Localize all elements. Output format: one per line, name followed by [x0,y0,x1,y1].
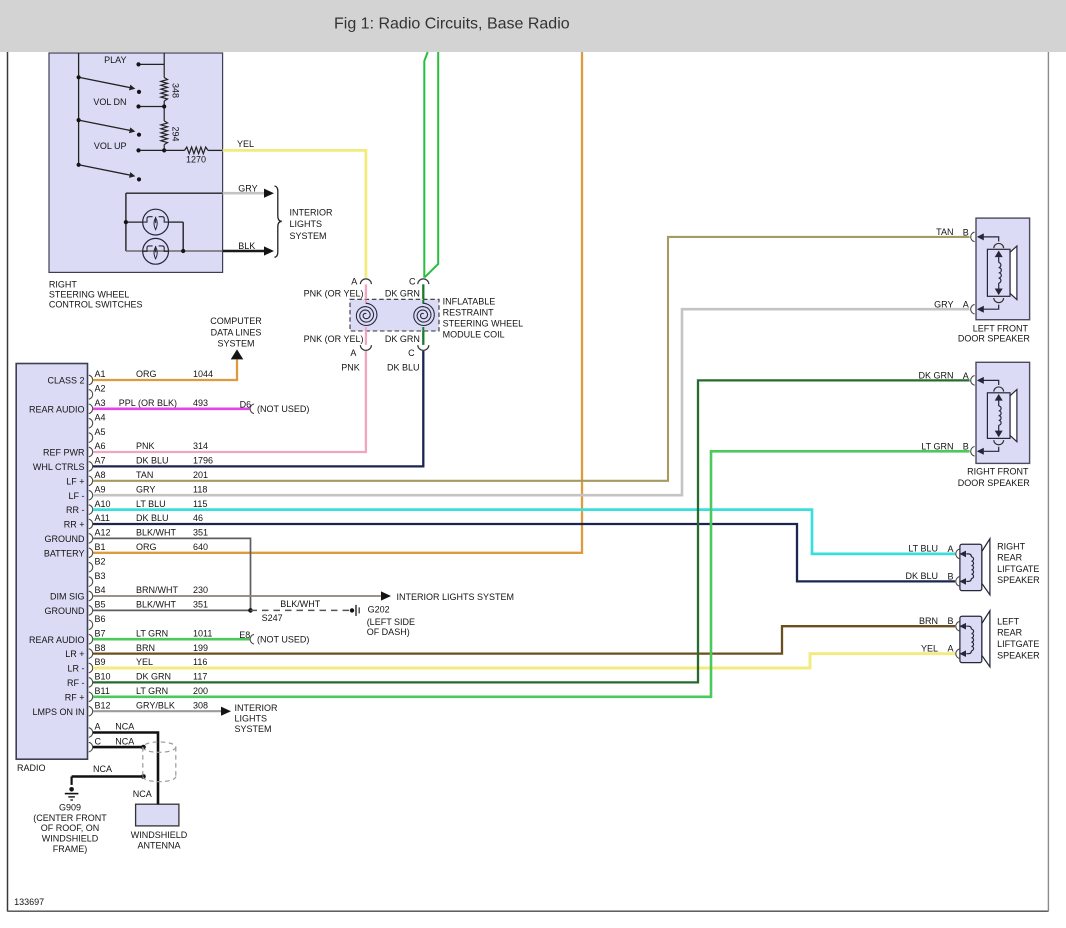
svg-text:GRY/BLK: GRY/BLK [136,700,175,710]
svg-text:SYSTEM: SYSTEM [217,338,254,348]
svg-text:LR +: LR + [65,649,84,659]
svg-text:STEERING WHEEL: STEERING WHEEL [443,319,524,329]
svg-text:REF PWR: REF PWR [43,448,85,458]
svg-text:G202: G202 [368,605,390,615]
svg-text:DOOR SPEAKER: DOOR SPEAKER [958,478,1031,488]
svg-text:WINDSHIELD: WINDSHIELD [131,830,188,840]
svg-text:ORG: ORG [136,369,157,379]
svg-text:308: 308 [193,700,208,710]
svg-text:A1: A1 [95,369,106,379]
svg-text:SPEAKER: SPEAKER [997,575,1040,585]
svg-text:A: A [947,644,953,654]
svg-text:A10: A10 [95,499,111,509]
svg-text:A6: A6 [95,441,106,451]
svg-text:SYSTEM: SYSTEM [235,724,272,734]
svg-text:(CENTER FRONT: (CENTER FRONT [33,813,107,823]
svg-text:TAN: TAN [936,227,953,237]
svg-text:DK BLU: DK BLU [136,456,169,466]
svg-text:INTERIOR: INTERIOR [290,207,334,217]
svg-text:RF +: RF + [65,692,85,702]
svg-text:199: 199 [193,643,208,653]
svg-text:LEFT: LEFT [997,616,1020,626]
svg-text:OF DASH): OF DASH) [367,627,410,637]
svg-text:A: A [963,371,969,381]
svg-text:640: 640 [193,542,208,552]
svg-text:RR -: RR - [66,505,85,515]
svg-text:FRAME): FRAME) [53,844,88,854]
svg-text:1270: 1270 [186,155,206,165]
svg-text:(LEFT SIDE: (LEFT SIDE [367,617,415,627]
svg-text:B: B [963,227,969,237]
svg-text:YEL: YEL [136,657,153,667]
svg-text:INTERIOR LIGHTS SYSTEM: INTERIOR LIGHTS SYSTEM [397,592,515,602]
svg-text:LEFT FRONT: LEFT FRONT [973,324,1029,334]
svg-text:1796: 1796 [193,456,213,466]
svg-text:LT BLU: LT BLU [136,499,166,509]
svg-text:WHL CTRLS: WHL CTRLS [33,462,85,472]
svg-text:B2: B2 [95,556,106,566]
svg-text:B: B [947,616,953,626]
svg-text:REAR: REAR [997,628,1023,638]
svg-text:VOL UP: VOL UP [94,141,127,151]
svg-text:REAR AUDIO: REAR AUDIO [29,635,85,645]
svg-text:DK BLU: DK BLU [387,362,420,372]
svg-text:SPEAKER: SPEAKER [997,650,1040,660]
svg-text:CONTROL SWITCHES: CONTROL SWITCHES [49,299,143,309]
svg-text:INTERIOR: INTERIOR [235,703,279,713]
svg-text:117: 117 [193,672,207,682]
svg-text:Fig 1: Radio Circuits, Base Ra: Fig 1: Radio Circuits, Base Radio [334,16,570,33]
svg-text:STEERING WHEEL: STEERING WHEEL [49,289,130,299]
svg-text:OF ROOF, ON: OF ROOF, ON [41,823,100,833]
svg-text:D6: D6 [240,400,252,410]
svg-text:B12: B12 [95,700,111,710]
svg-text:LT BLU: LT BLU [908,544,938,554]
svg-text:CLASS 2: CLASS 2 [47,376,84,386]
svg-text:GROUND: GROUND [45,534,85,544]
svg-text:B9: B9 [95,657,106,667]
svg-text:BRN/WHT: BRN/WHT [136,585,178,595]
svg-text:A12: A12 [95,528,111,538]
svg-text:115: 115 [193,499,207,509]
svg-text:GRY: GRY [136,484,155,494]
svg-text:C: C [95,736,102,746]
svg-text:A3: A3 [95,398,106,408]
svg-text:A: A [351,277,357,287]
svg-text:LT GRN: LT GRN [921,441,953,451]
svg-text:B: B [947,571,953,581]
svg-text:B8: B8 [95,643,106,653]
svg-text:314: 314 [193,441,208,451]
svg-text:230: 230 [193,585,208,595]
svg-text:TAN: TAN [136,470,153,480]
svg-text:LF +: LF + [66,476,84,486]
svg-text:A: A [963,300,969,310]
svg-text:BLK/WHT: BLK/WHT [280,599,321,609]
svg-text:DIM SIG: DIM SIG [50,592,85,602]
svg-text:BLK/WHT: BLK/WHT [136,528,177,538]
svg-text:118: 118 [193,484,207,494]
svg-text:PNK (OR YEL): PNK (OR YEL) [304,288,364,298]
svg-text:DATA LINES: DATA LINES [211,327,262,337]
svg-text:DK BLU: DK BLU [136,513,169,523]
svg-text:BRN: BRN [919,616,938,626]
svg-text:GROUND: GROUND [45,606,85,616]
svg-text:1011: 1011 [193,628,212,638]
svg-text:MODULE COIL: MODULE COIL [443,330,505,340]
svg-text:B1: B1 [95,542,106,552]
svg-text:A8: A8 [95,470,106,480]
svg-text:B10: B10 [95,672,111,682]
svg-text:LIFTGATE: LIFTGATE [997,564,1039,574]
svg-text:(NOT USED): (NOT USED) [257,404,309,414]
svg-text:C: C [408,348,415,358]
svg-text:PLAY: PLAY [104,55,126,65]
svg-text:B5: B5 [95,600,106,610]
svg-text:DK BLU: DK BLU [905,571,938,581]
svg-text:A: A [95,722,101,732]
svg-text:493: 493 [193,398,208,408]
svg-text:351: 351 [193,528,208,538]
svg-text:PPL (OR BLK): PPL (OR BLK) [119,398,177,408]
svg-text:BLK/WHT: BLK/WHT [136,600,177,610]
svg-text:RR +: RR + [64,520,85,530]
svg-text:A5: A5 [95,427,106,437]
svg-text:C: C [409,277,416,287]
svg-text:BLK: BLK [238,241,255,251]
svg-text:S247: S247 [262,613,283,623]
svg-text:DOOR SPEAKER: DOOR SPEAKER [958,334,1031,344]
svg-text:NCA: NCA [133,789,152,799]
svg-text:1044: 1044 [193,369,213,379]
svg-text:RIGHT FRONT: RIGHT FRONT [967,467,1029,477]
svg-text:B3: B3 [95,571,106,581]
svg-text:RESTRAINT: RESTRAINT [443,308,495,318]
svg-text:201: 201 [193,470,208,480]
svg-text:ANTENNA: ANTENNA [137,841,180,851]
svg-text:WINDSHIELD: WINDSHIELD [42,834,99,844]
svg-text:ORG: ORG [136,542,157,552]
svg-text:DK GRN: DK GRN [385,334,420,344]
svg-text:46: 46 [193,513,203,523]
svg-text:LR -: LR - [67,664,84,674]
svg-text:DK GRN: DK GRN [136,672,171,682]
svg-text:VOL DN: VOL DN [93,97,126,107]
svg-text:BATTERY: BATTERY [44,548,85,558]
svg-text:REAR: REAR [997,553,1023,563]
svg-text:PNK (OR YEL): PNK (OR YEL) [304,334,364,344]
svg-text:RADIO: RADIO [17,763,46,773]
svg-text:116: 116 [193,657,207,667]
svg-text:LT GRN: LT GRN [136,628,168,638]
svg-text:PNK: PNK [136,441,155,451]
svg-text:E8: E8 [239,630,250,640]
svg-text:NCA: NCA [93,764,112,774]
svg-text:200: 200 [193,686,208,696]
svg-text:LIGHTS: LIGHTS [235,714,268,724]
svg-text:A: A [350,348,356,358]
svg-text:LT GRN: LT GRN [136,686,168,696]
svg-text:BRN: BRN [136,643,155,653]
svg-text:LIFTGATE: LIFTGATE [997,639,1039,649]
svg-text:REAR AUDIO: REAR AUDIO [29,404,85,414]
svg-text:GRY: GRY [934,299,953,309]
svg-text:A2: A2 [95,384,106,394]
svg-text:YEL: YEL [237,139,254,149]
svg-text:NCA: NCA [115,736,134,746]
svg-text:COMPUTER: COMPUTER [210,316,262,326]
svg-text:A: A [947,544,953,554]
svg-text:B7: B7 [95,628,106,638]
svg-text:133697: 133697 [14,897,44,907]
svg-text:NCA: NCA [115,722,134,732]
svg-text:B11: B11 [95,686,110,696]
svg-text:A4: A4 [95,412,106,422]
svg-text:SYSTEM: SYSTEM [290,231,327,241]
svg-text:LMPS ON IN: LMPS ON IN [32,707,84,717]
svg-text:RF -: RF - [67,678,85,688]
svg-text:A9: A9 [95,484,106,494]
svg-text:A7: A7 [95,456,106,466]
svg-text:B4: B4 [95,585,106,595]
svg-text:B6: B6 [95,614,106,624]
svg-text:294: 294 [170,127,180,142]
svg-text:B: B [963,442,969,452]
svg-text:INFLATABLE: INFLATABLE [443,297,496,307]
svg-text:G909: G909 [59,802,81,812]
svg-text:GRY: GRY [238,183,257,193]
svg-text:348: 348 [170,83,180,98]
svg-text:DK GRN: DK GRN [918,371,953,381]
svg-text:A11: A11 [95,513,110,523]
svg-text:(NOT USED): (NOT USED) [257,635,309,645]
svg-text:LIGHTS: LIGHTS [290,219,323,229]
svg-text:RIGHT: RIGHT [997,541,1026,551]
svg-text:DK GRN: DK GRN [385,288,420,298]
svg-text:351: 351 [193,600,208,610]
svg-text:PNK: PNK [341,362,360,372]
svg-text:RIGHT: RIGHT [49,280,78,290]
svg-text:YEL: YEL [921,643,938,653]
svg-text:LF -: LF - [68,491,84,501]
